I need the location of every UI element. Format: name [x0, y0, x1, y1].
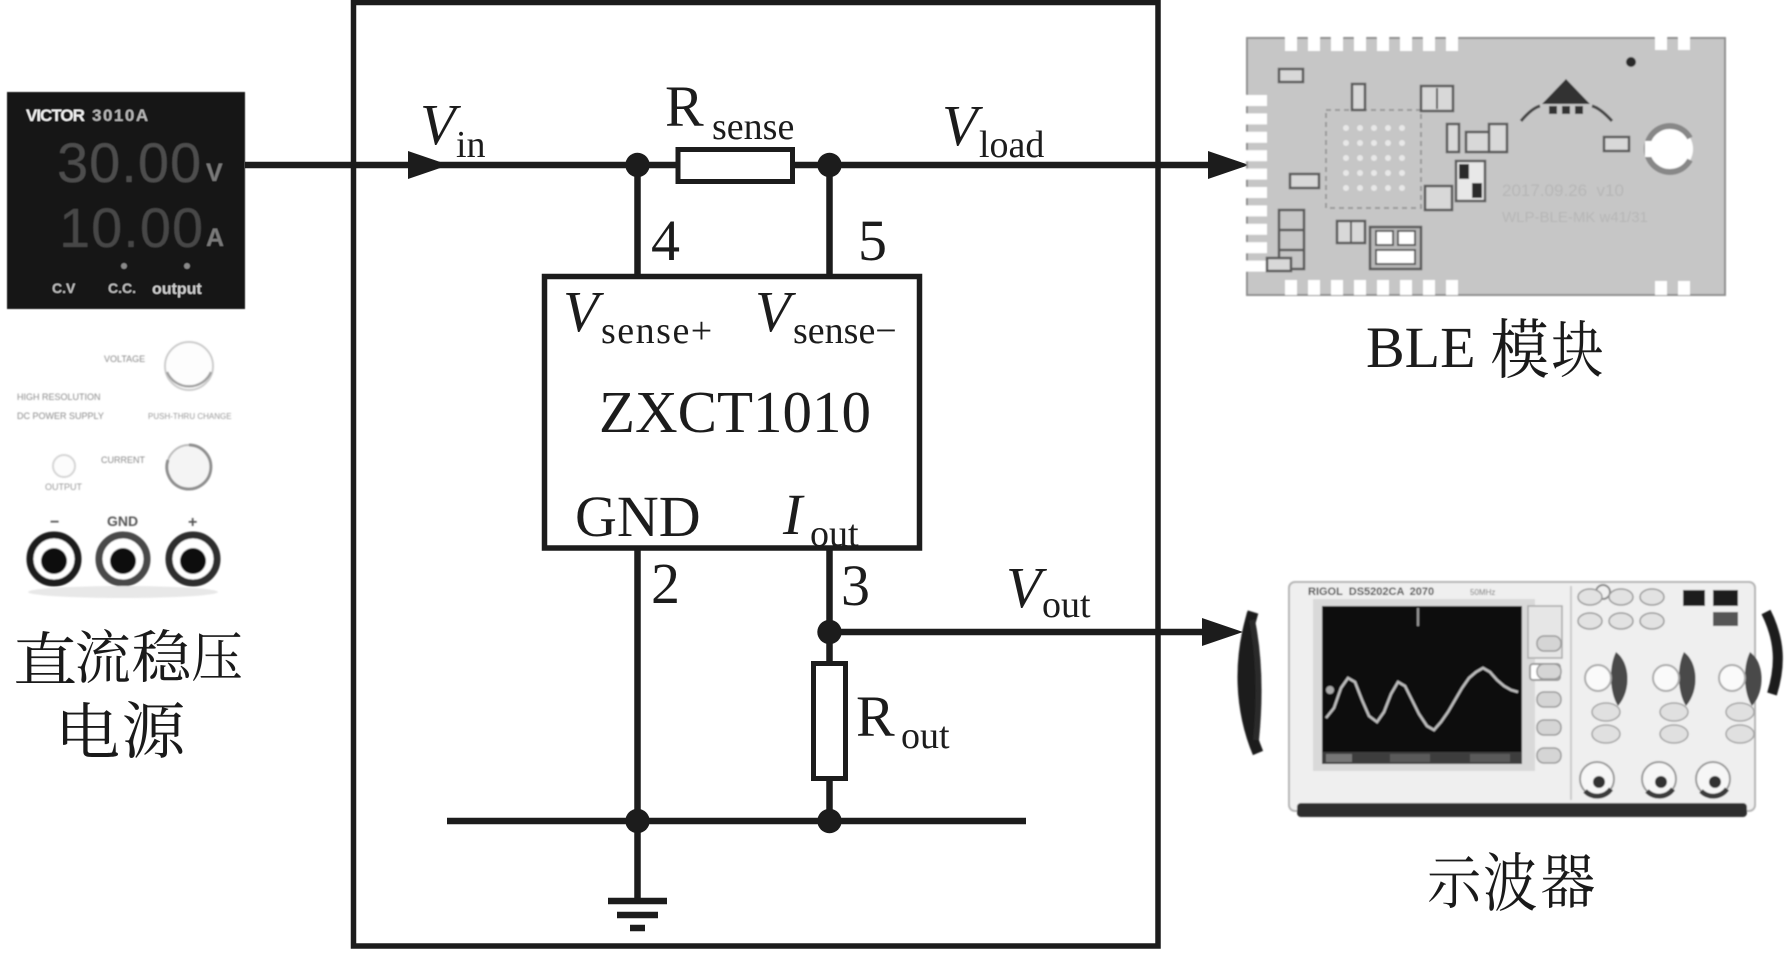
svg-text:WLP-BLE-MK w41/31: WLP-BLE-MK w41/31 [1502, 209, 1648, 226]
svg-text:CURRENT: CURRENT [101, 455, 146, 465]
svg-text:RIGOL DS5202CA 2070: RIGOL DS5202CA 2070 [1308, 586, 1434, 598]
svg-text:DC POWER SUPPLY: DC POWER SUPPLY [17, 411, 104, 421]
svg-text:3010A: 3010A [92, 106, 150, 125]
svg-text:V: V [206, 159, 223, 187]
svg-text:PUSH-THRU CHANGE: PUSH-THRU CHANGE [148, 412, 232, 421]
svg-text:−: − [50, 514, 59, 531]
svg-text:2: 2 [651, 551, 680, 616]
svg-text:3: 3 [841, 553, 870, 618]
svg-text:I: I [782, 482, 805, 547]
svg-text:5: 5 [858, 208, 887, 273]
svg-text:out: out [1042, 584, 1091, 626]
svg-text:output: output [152, 281, 202, 298]
svg-text:R: R [856, 684, 895, 749]
svg-text:ZXCT1010: ZXCT1010 [599, 379, 871, 445]
svg-text:C.C.: C.C. [108, 280, 136, 296]
svg-text:in: in [456, 124, 486, 166]
svg-text:30.00: 30.00 [57, 131, 202, 194]
svg-text:10.00: 10.00 [59, 196, 204, 259]
svg-text:sense−: sense− [793, 310, 897, 352]
svg-text:HIGH RESOLUTION: HIGH RESOLUTION [17, 392, 101, 402]
svg-text:GND: GND [575, 484, 701, 549]
svg-text:out: out [810, 513, 859, 555]
svg-text:50MHz: 50MHz [1470, 588, 1495, 597]
svg-text:sense: sense [712, 106, 794, 148]
svg-text:out: out [901, 715, 950, 757]
svg-text:2017.09.26 v10: 2017.09.26 v10 [1502, 181, 1624, 200]
svg-text:GND: GND [107, 513, 138, 529]
svg-text:BLE: BLE [1366, 315, 1476, 380]
svg-text:OUTPUT: OUTPUT [45, 482, 83, 492]
svg-text:A: A [206, 224, 224, 252]
svg-text:VOLTAGE: VOLTAGE [104, 354, 145, 364]
svg-text:+: + [188, 514, 197, 531]
svg-text:sense+: sense+ [601, 310, 714, 352]
svg-text:load: load [979, 124, 1044, 166]
svg-text:R: R [665, 74, 704, 139]
svg-text:C.V: C.V [52, 280, 76, 296]
svg-text:4: 4 [651, 208, 680, 273]
svg-text:VICTOR: VICTOR [26, 106, 85, 125]
